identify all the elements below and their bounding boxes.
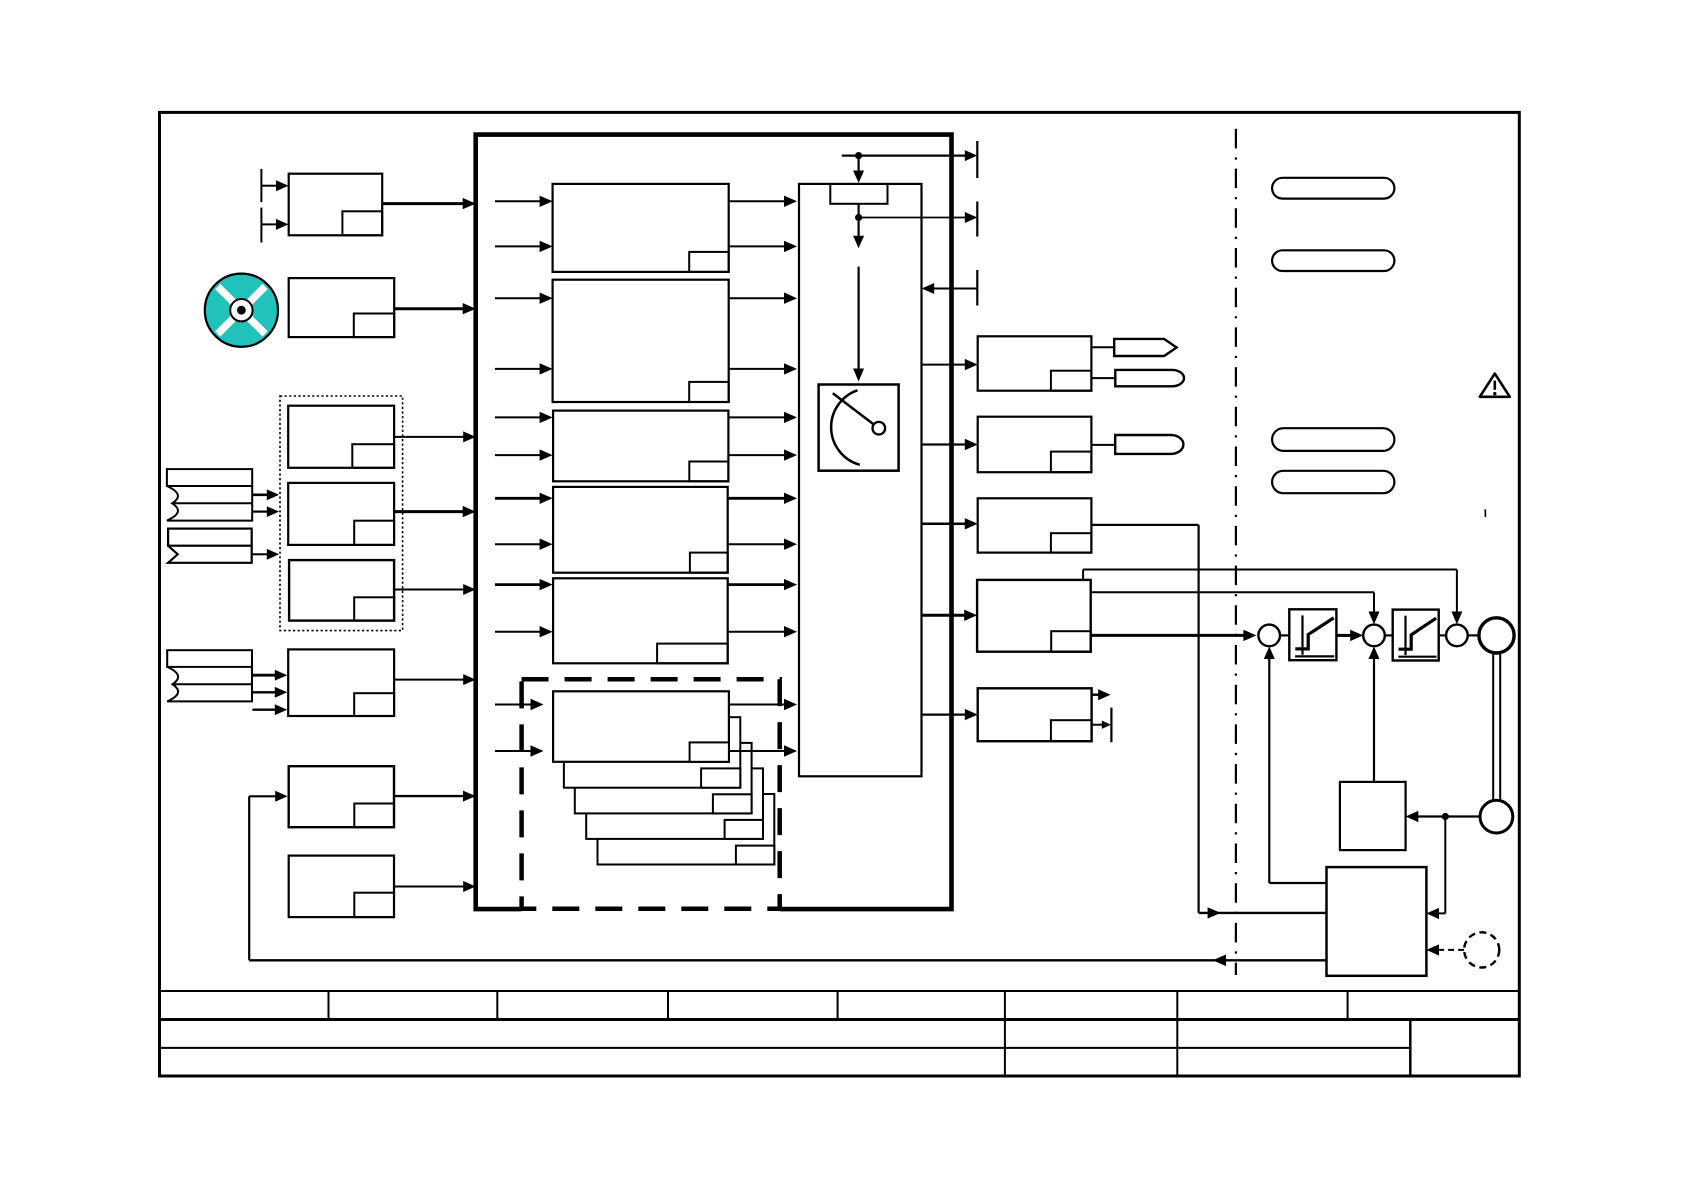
- wire R5 output arrow 1: [1092, 689, 1111, 700]
- box L5: [289, 766, 394, 827]
- box L1: [289, 174, 383, 236]
- wire R4 output to sum circle 2: [1091, 592, 1380, 624]
- title block top line: [160, 990, 1520, 992]
- wire arrow down into top small box: [853, 156, 864, 183]
- wire arrow into box L1 input 1: [261, 180, 288, 191]
- title block row1 column separators: [329, 991, 1348, 1020]
- wire sheets1 arrow 2: [252, 506, 279, 517]
- wire box C output 1: [728, 412, 797, 423]
- wire box D output 2: [728, 539, 797, 550]
- wire R5 output arrow 2 to tick: [1092, 721, 1111, 729]
- paper sheet 2 (zigzag): [168, 529, 252, 563]
- box L3a: [288, 406, 394, 468]
- connector tick 1 (top right of central box): [976, 141, 978, 178]
- wire R4 main setpoint to sum circle 1: [1091, 630, 1257, 641]
- dotted group box (left): [280, 396, 403, 631]
- box L6: [289, 856, 394, 918]
- wire R3 riser into control box: [1199, 907, 1327, 918]
- cascade box 4: [586, 768, 763, 839]
- sum circle 2: [1363, 625, 1385, 647]
- box A: [553, 184, 729, 272]
- wire R4 top tap to sum circle 3: [1083, 570, 1462, 625]
- outer frame: [160, 112, 1520, 1076]
- wire box A output 1: [729, 196, 797, 207]
- selector tall box: [799, 184, 922, 776]
- big control box bottom right: [1327, 867, 1427, 976]
- wire encoder to eval box with junction: [1406, 811, 1480, 822]
- inner fan arrows into box D: [495, 493, 553, 504]
- wire box B output 1: [729, 293, 797, 304]
- flag pointed connector: [1114, 339, 1176, 356]
- sum circle 1: [1258, 625, 1280, 647]
- inner fan arrows into cascade box: [495, 699, 544, 710]
- pill shape 2: [1272, 250, 1394, 271]
- title block lower column separators: [1005, 1020, 1410, 1077]
- box L2: [289, 278, 395, 337]
- wire L5 output to central box: [394, 791, 476, 802]
- wire sheet2 arrow: [252, 549, 279, 560]
- box R5: [978, 688, 1092, 741]
- wire sum2 to limiter2: [1385, 634, 1393, 636]
- inner fan arrows into box B: [495, 293, 553, 304]
- limiter block 2: [1393, 610, 1439, 661]
- dashed input stub line: [260, 169, 262, 243]
- CD disc icon: [194, 263, 289, 358]
- wire L2 output to central box: [394, 303, 476, 314]
- dashed option circle: [1464, 932, 1499, 967]
- wire sheets3 arrow 2: [252, 687, 287, 698]
- connector tick R5: [1110, 708, 1112, 743]
- box R3: [978, 498, 1092, 552]
- limiter block 1: [1289, 609, 1336, 660]
- paper sheets stack 3: [167, 650, 252, 701]
- box R2: [978, 417, 1092, 473]
- wire limiter2 to circle 3: [1439, 634, 1446, 636]
- box R4: [977, 580, 1091, 652]
- wire L3b output to central box: [394, 506, 476, 517]
- meter gauge box: [819, 385, 899, 471]
- pill connector R2: [1115, 435, 1183, 454]
- wire L3a output to central box: [394, 431, 476, 442]
- motor shaft double line: [1493, 653, 1500, 800]
- wire junction down into big control box: [1426, 817, 1445, 920]
- paper sheets stack 1: [167, 469, 252, 520]
- connector tick 3: [976, 270, 978, 306]
- title block row2 bottom line: [160, 1047, 1411, 1049]
- wire selector output to box R5: [922, 709, 978, 720]
- cascade box 1: [553, 691, 729, 762]
- wire feedback riser into L5: [249, 791, 287, 961]
- cascade box 2: [564, 717, 740, 788]
- box L4: [288, 649, 394, 716]
- wire sum1 to limiter1: [1280, 634, 1289, 636]
- box R1: [978, 336, 1092, 390]
- wire long feedback line bottom: [249, 955, 1326, 967]
- cascade box 3: [575, 743, 752, 814]
- motor circle: [1479, 618, 1514, 653]
- pill shape 3: [1272, 428, 1394, 451]
- wire selector output to box R4: [922, 610, 978, 621]
- small tick mark: [1485, 509, 1487, 517]
- small limiter box on selector top: [830, 184, 887, 204]
- wire circle3 to motor: [1468, 634, 1479, 636]
- central thick function box: [476, 135, 952, 910]
- box B: [553, 280, 729, 402]
- pill shape 1 (top right): [1272, 178, 1394, 199]
- wire cascade output 1: [729, 699, 797, 710]
- inner fan arrows into box E: [495, 579, 553, 590]
- wire tap line to connector 2: [859, 212, 978, 223]
- inner fan arrows into box A: [495, 196, 553, 207]
- box C: [553, 411, 728, 482]
- sum circle 3: [1446, 625, 1468, 647]
- wire to pill connector R1: [1091, 377, 1115, 379]
- wire control box output up to sum circle 1: [1264, 646, 1327, 883]
- wire eval box up to sum circle 2: [1369, 646, 1380, 782]
- title block row1 bottom thick line: [160, 1018, 1520, 1021]
- wire sheets3 arrow 1: [252, 670, 287, 681]
- dash-dot separator line: [1235, 129, 1237, 975]
- wire box C output 2: [728, 449, 797, 460]
- wire R3 output riser to lower box: [1091, 525, 1198, 913]
- pill shape 4: [1272, 471, 1394, 493]
- wire limiter1 to sum circle 2: [1336, 630, 1363, 641]
- wire selector output to box R2: [922, 439, 978, 450]
- wire box B output 2: [729, 363, 797, 374]
- box E: [553, 578, 728, 663]
- dashed wire option circle to control box: [1426, 944, 1464, 955]
- wire box E output 2: [728, 626, 797, 637]
- wire cascade output 2: [729, 745, 797, 756]
- wire L3c output to central box: [394, 584, 476, 595]
- warning triangle: [1480, 374, 1510, 397]
- box L3b: [288, 483, 394, 545]
- wire box A output 2: [729, 241, 797, 252]
- wire box D output 1: [728, 493, 797, 504]
- wire selector output to box R1: [922, 359, 978, 370]
- wire selector output to box R3: [922, 518, 978, 529]
- wire top tap line to connector 1: [842, 150, 978, 161]
- inner fan arrows into box C: [495, 412, 553, 423]
- pill connector R1: [1115, 370, 1184, 386]
- box D: [553, 487, 728, 573]
- wire to pill connector R2: [1091, 444, 1115, 446]
- wire sheets3 arrow 3: [252, 704, 287, 715]
- wire sheets1 arrow 1: [252, 489, 279, 500]
- wire arrow from connector 3 into selector: [922, 283, 978, 294]
- dashed group box (fixed setpoints): [522, 679, 780, 909]
- wire below small box with junction: [853, 204, 864, 248]
- cascade box 5: [598, 794, 775, 865]
- eval square box: [1340, 782, 1406, 850]
- wire arrow down to meter: [853, 267, 864, 382]
- wire L1 output to central box: [382, 198, 476, 209]
- wire to flag connector: [1091, 346, 1114, 348]
- wire box E output 1: [728, 579, 797, 590]
- wire arrow into box L1 input 2: [261, 219, 288, 230]
- wire L6 output to central box: [394, 881, 476, 892]
- box L3c: [289, 560, 394, 621]
- wire L4 output to central box: [394, 674, 476, 685]
- encoder circle: [1480, 800, 1513, 833]
- connector tick 2: [976, 202, 978, 237]
